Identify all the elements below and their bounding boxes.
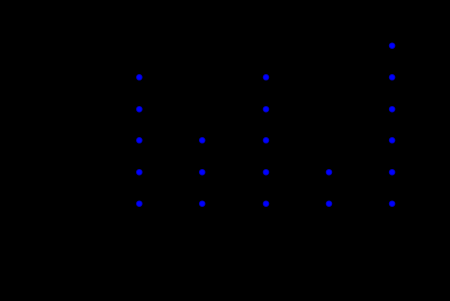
node C2R5 (junction dot) [199,169,205,175]
node C5R5 (junction dot) [389,169,395,175]
node C3R6 (junction dot) [263,201,269,207]
node C1R4 (junction dot) [137,138,143,144]
node C1R5 (junction dot) [137,169,143,175]
node C4R6 (junction dot) [326,201,332,207]
node C1R6 (junction dot) [137,201,143,207]
node C1R3 (junction dot) [137,106,143,112]
node C5R6 (junction dot) [389,201,395,207]
node C5R3 (junction dot) [389,106,395,112]
node C1R2 (junction dot) [137,75,143,81]
node C5R1 (junction dot) [389,43,395,49]
node C3R3 (junction dot) [263,106,269,112]
node C3R2 (junction dot) [263,75,269,81]
node C2R6 (junction dot) [199,201,205,207]
node C2R4 (junction dot) [199,138,205,144]
node C4R5 (junction dot) [326,169,332,175]
node C3R4 (junction dot) [263,138,269,144]
node C5R2 (junction dot) [389,75,395,81]
node C5R4 (junction dot) [389,138,395,144]
node C3R5 (junction dot) [263,169,269,175]
